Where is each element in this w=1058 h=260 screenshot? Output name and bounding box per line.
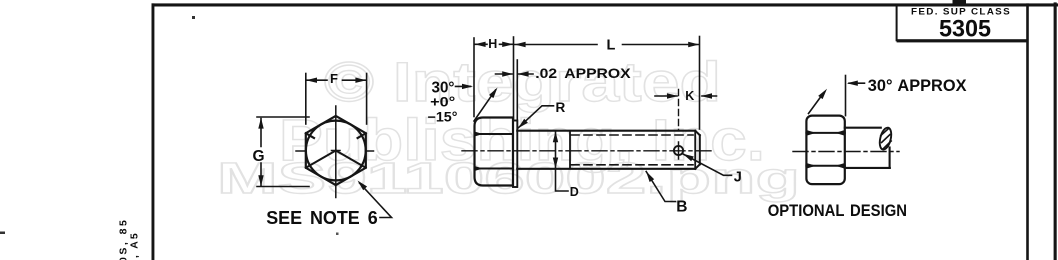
end chamfer top diagonal xyxy=(695,131,700,136)
optional diagonal arrowhead xyxy=(818,89,827,99)
.02 right arrow line xyxy=(519,73,534,75)
bolt head side view xyxy=(475,118,514,186)
30 deg diagonal arrowhead xyxy=(489,88,498,99)
G down arrow xyxy=(258,175,263,186)
arrowheads xyxy=(258,42,858,191)
optional head face line lower xyxy=(806,165,844,167)
hole vertical centerline xyxy=(678,142,680,159)
optional head face line upper xyxy=(806,132,844,134)
radial line to lower-left vertex xyxy=(306,151,336,168)
svg-text:G: G xyxy=(253,148,265,165)
F right arrow xyxy=(355,78,366,83)
thread runout line xyxy=(569,131,571,169)
thread hidden line bottom xyxy=(571,164,693,166)
svg-text:D: D xyxy=(570,185,579,199)
K dim line left xyxy=(655,95,677,97)
optional stub bottom line xyxy=(845,167,890,169)
R arrowhead xyxy=(518,119,528,129)
svg-text:K: K xyxy=(685,89,694,103)
optional stub hatch xyxy=(881,129,891,149)
K dim extension left dashed xyxy=(678,90,680,131)
L dim extension right xyxy=(699,37,701,130)
30 deg leader arrow line xyxy=(456,85,471,87)
F dim extension right xyxy=(366,74,368,125)
shank top line xyxy=(517,130,695,132)
optional face arc wedges xyxy=(807,130,844,168)
L right arrow xyxy=(688,42,699,47)
L left arrow xyxy=(515,42,526,47)
hexagon head front view xyxy=(306,116,366,185)
shank bottom line xyxy=(517,168,695,170)
H dim extension left xyxy=(473,38,475,117)
L dim line xyxy=(515,44,699,46)
border outer right xyxy=(1054,2,1057,260)
D up arrow xyxy=(553,131,558,142)
J arrowhead xyxy=(683,154,694,162)
upper-left corner tick xyxy=(306,133,314,138)
optional stub end line xyxy=(889,148,891,168)
see note arrow xyxy=(358,181,368,191)
hexagon right center tick xyxy=(366,150,374,152)
G dim extension top xyxy=(257,116,309,118)
svg-text:0, A5: 0, A5 xyxy=(129,231,141,260)
washer face xyxy=(513,121,517,188)
.02 left arrow line xyxy=(496,73,513,75)
head face line lower xyxy=(475,168,514,170)
H dim line xyxy=(475,43,513,45)
hexagon vertical centerline xyxy=(335,106,337,198)
svg-text:J: J xyxy=(734,170,742,186)
svg-text:30° APPROX: 30° APPROX xyxy=(868,76,967,95)
top border bump xyxy=(953,0,967,4)
svg-text:L: L xyxy=(607,38,616,54)
svg-text:.02 APPROX: .02 APPROX xyxy=(535,65,631,81)
svg-text:+0°: +0° xyxy=(430,94,455,109)
G dim line xyxy=(260,119,262,186)
bolt end face xyxy=(699,135,701,164)
svg-text:MS91106002.png: MS91106002.png xyxy=(217,154,800,203)
svg-text:H: H xyxy=(488,37,497,51)
svg-text:OPTIONAL DESIGN: OPTIONAL DESIGN xyxy=(768,202,907,220)
svg-text:© Integrated: © Integrated xyxy=(324,50,721,113)
svg-text:SEE NOTE 6: SEE NOTE 6 xyxy=(266,208,378,228)
.02 right arrow xyxy=(518,71,529,76)
cotter pin hole J xyxy=(674,146,683,155)
see note 6 leader xyxy=(360,183,392,218)
D down arrow xyxy=(553,158,558,169)
radial line to lower-right vertex xyxy=(336,151,366,168)
K right arrow xyxy=(701,93,712,98)
G dim extension bottom xyxy=(257,186,309,188)
border left xyxy=(152,3,155,260)
.02 left arrow xyxy=(502,71,513,76)
upper-right corner tick xyxy=(358,133,366,138)
head face line upper xyxy=(475,133,514,135)
J leader xyxy=(683,154,732,175)
washer extension line xyxy=(516,60,518,127)
F dim extension left xyxy=(305,74,307,125)
end chamfer bottom diagonal xyxy=(695,164,700,168)
speck below note xyxy=(336,233,339,236)
bolt centerline xyxy=(462,150,712,152)
H/L shared extension line xyxy=(513,37,515,120)
B arrowhead xyxy=(646,171,654,182)
H left arrow xyxy=(475,42,486,47)
30 deg horizontal arrow xyxy=(462,84,473,89)
F left arrow xyxy=(306,78,317,83)
svg-text:B: B xyxy=(676,199,687,216)
optional chamfer diagonal leader xyxy=(809,93,824,114)
chamfer circle xyxy=(306,121,366,181)
R leader xyxy=(518,106,553,128)
optional 30 deg left arrow xyxy=(847,81,858,86)
optional centerline xyxy=(793,151,899,153)
F dim line xyxy=(306,79,366,81)
30 deg chamfer diagonal leader xyxy=(474,90,496,121)
speck left edge xyxy=(0,232,5,235)
H right arrow xyxy=(502,42,513,47)
border inner right xyxy=(1026,3,1029,260)
D dim line xyxy=(556,132,569,192)
K left arrow xyxy=(667,93,678,98)
fed sup class box xyxy=(896,5,898,40)
svg-text:R: R xyxy=(556,100,566,115)
thread hidden line top xyxy=(571,134,693,136)
optional 30 deg extension line xyxy=(845,76,847,116)
G up arrow xyxy=(258,118,263,129)
optional design head xyxy=(806,116,844,185)
svg-text:5305: 5305 xyxy=(939,16,991,43)
svg-text:F: F xyxy=(330,71,338,86)
border top xyxy=(152,3,1058,6)
hexagon center cross xyxy=(332,150,341,152)
hexagon left center tick xyxy=(296,150,306,152)
optional stub top line xyxy=(845,127,881,129)
optional 30 deg arrow line xyxy=(849,82,865,84)
end chamfer start line xyxy=(694,131,696,169)
B leader xyxy=(646,172,675,202)
head face wedges xyxy=(475,132,483,171)
svg-text:−15°: −15° xyxy=(428,109,458,124)
speck top xyxy=(192,16,195,19)
K dim line right xyxy=(702,95,717,97)
optional stub break ellipse xyxy=(878,126,894,150)
